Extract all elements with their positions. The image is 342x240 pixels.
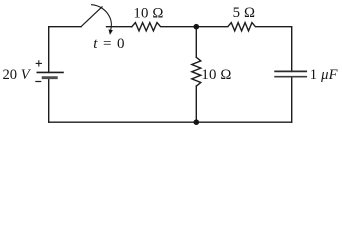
svg-text:10 Ω: 10 Ω [133, 6, 163, 22]
svg-text:10 Ω: 10 Ω [201, 67, 231, 83]
svg-text:20 V: 20 V [3, 67, 32, 83]
svg-text:1 μF: 1 μF [310, 67, 339, 83]
svg-text:t = 0: t = 0 [93, 36, 125, 52]
svg-text:5 Ω: 5 Ω [233, 5, 256, 21]
